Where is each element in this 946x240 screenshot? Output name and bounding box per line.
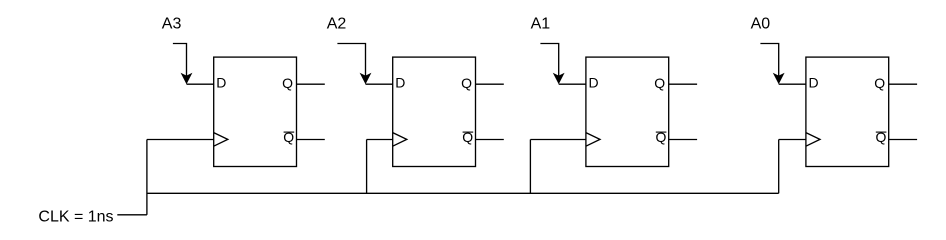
wire: A3 elbow to U1.D	[173, 44, 187, 77]
wire: CLK lead from label	[117, 214, 147, 216]
flip-flop U3 body	[586, 57, 669, 166]
wire: clock branch to U3	[530, 139, 586, 141]
wire: U2 Q output stub	[476, 83, 504, 85]
wire: clock branch to U2	[367, 139, 393, 141]
wire: U4 Q output stub	[889, 83, 917, 85]
wire: clock branch to U1	[147, 139, 214, 141]
wire: A1 elbow to U3.D	[540, 44, 558, 77]
wire: U4 Qbar output stub	[889, 139, 917, 141]
wire: U2 D input stub	[366, 83, 393, 85]
U1 Qbar overline	[284, 131, 295, 133]
svg-text:D: D	[216, 75, 226, 91]
U2 clock triangle	[393, 133, 407, 147]
wire: U3 Q output stub	[669, 83, 697, 85]
wire: U1 D input stub	[187, 83, 214, 85]
arrowhead A3	[181, 73, 193, 85]
wire: clock riser at x367	[366, 140, 368, 194]
svg-text:D: D	[589, 75, 599, 91]
arrowhead A1	[553, 73, 565, 85]
svg-text:CLK = 1ns: CLK = 1ns	[38, 209, 113, 226]
wire: clock riser at x147	[146, 140, 148, 215]
flip-flop U4 body	[806, 57, 889, 166]
wire: U3 Qbar output stub	[669, 139, 697, 141]
svg-text:Q: Q	[656, 129, 667, 145]
svg-text:Q: Q	[876, 129, 887, 145]
svg-text:Q: Q	[282, 75, 293, 91]
wire: U3 D input stub	[559, 83, 586, 85]
svg-text:A0: A0	[751, 16, 771, 33]
arrowhead A2	[360, 73, 372, 85]
svg-text:Q: Q	[461, 75, 472, 91]
wire: U2 Qbar output stub	[476, 139, 504, 141]
U4 clock triangle	[806, 133, 820, 147]
svg-text:Q: Q	[283, 129, 294, 145]
U3 Qbar overline	[656, 131, 667, 133]
wire: U4 D input stub	[779, 83, 806, 85]
U2 Qbar overline	[463, 131, 474, 133]
U1 clock triangle	[214, 133, 228, 147]
flip-flop U2 body	[393, 57, 476, 166]
svg-text:Q: Q	[654, 75, 665, 91]
svg-text:Q: Q	[462, 129, 473, 145]
svg-text:D: D	[809, 75, 819, 91]
arrowhead A0	[773, 73, 785, 85]
wire: A0 elbow to U4.D	[760, 44, 778, 77]
wire: clock riser at x779	[778, 140, 780, 194]
flip-flop U1 body	[214, 57, 297, 166]
wire: clock bus horizontal	[147, 192, 779, 194]
svg-text:A1: A1	[531, 16, 551, 33]
svg-text:A2: A2	[327, 16, 347, 33]
svg-text:D: D	[395, 75, 405, 91]
U4 Qbar overline	[876, 131, 887, 133]
wire: clock branch to U4	[779, 139, 806, 141]
wire: U1 Q output stub	[297, 83, 325, 85]
wire: clock riser at x530	[529, 140, 531, 194]
wire: A2 elbow to U2.D	[337, 44, 365, 77]
svg-text:A3: A3	[162, 16, 182, 33]
wire: U1 Qbar output stub	[297, 139, 325, 141]
svg-text:Q: Q	[874, 75, 885, 91]
U3 clock triangle	[586, 133, 600, 147]
